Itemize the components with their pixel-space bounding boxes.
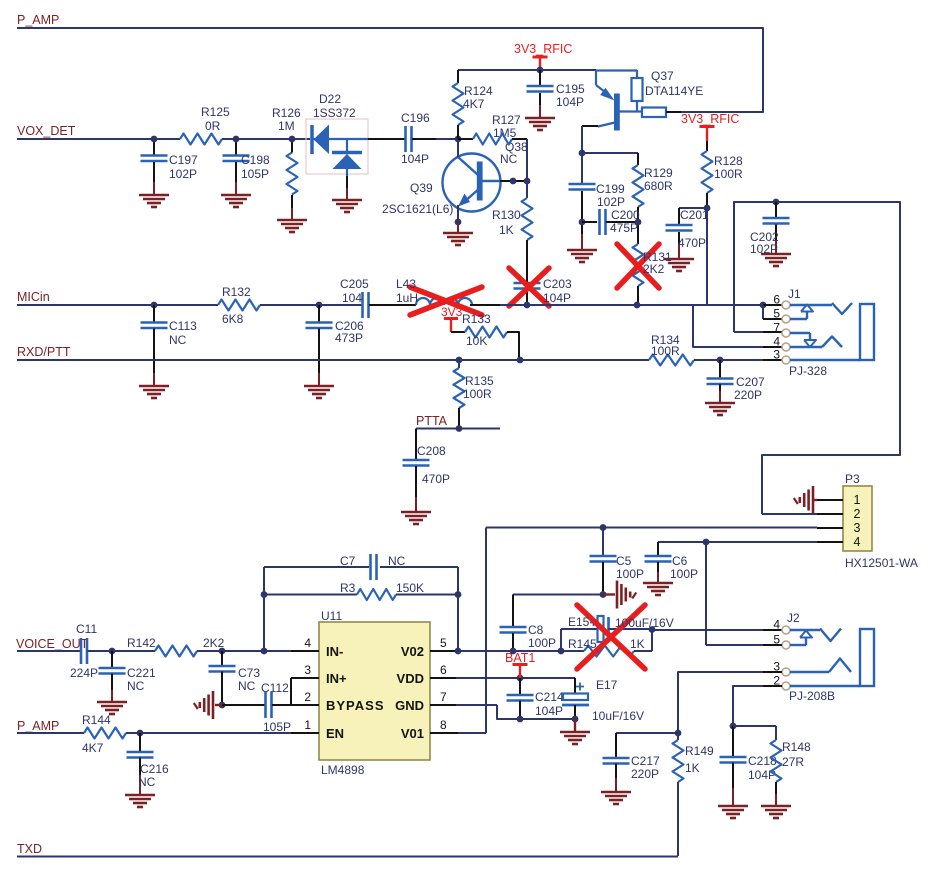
svg-text:C7: C7: [340, 554, 356, 568]
svg-text:3: 3: [304, 663, 311, 677]
svg-text:U11: U11: [321, 609, 342, 623]
svg-text:C11: C11: [76, 622, 97, 636]
svg-text:473P: 473P: [335, 331, 363, 345]
svg-text:NC: NC: [388, 554, 406, 568]
svg-text:10K: 10K: [466, 334, 487, 348]
svg-text:Q37: Q37: [651, 69, 674, 83]
svg-text:R144: R144: [82, 713, 111, 727]
svg-text:EN: EN: [326, 726, 344, 741]
svg-text:1uH: 1uH: [396, 291, 418, 305]
svg-text:4: 4: [854, 535, 861, 549]
svg-text:VOICE_OUT: VOICE_OUT: [16, 637, 89, 651]
svg-text:6: 6: [440, 663, 447, 677]
svg-text:6: 6: [773, 293, 780, 307]
svg-text:475P: 475P: [610, 221, 638, 235]
svg-text:5: 5: [773, 307, 780, 321]
svg-text:HX12501-WA: HX12501-WA: [845, 556, 918, 570]
svg-text:P3: P3: [845, 472, 860, 486]
svg-text:150K: 150K: [396, 581, 424, 595]
svg-text:C207: C207: [736, 375, 765, 389]
svg-text:1: 1: [304, 718, 311, 732]
svg-text:4K7: 4K7: [463, 97, 485, 111]
svg-text:R133: R133: [462, 312, 491, 326]
svg-text:C6: C6: [672, 554, 688, 568]
svg-text:C8: C8: [528, 623, 544, 637]
svg-text:MICin: MICin: [17, 290, 50, 304]
svg-text:C214: C214: [535, 690, 564, 704]
svg-text:104P: 104P: [556, 95, 584, 109]
svg-text:C195: C195: [556, 82, 585, 96]
svg-text:J1: J1: [788, 287, 801, 301]
svg-text:3V3_RFIC: 3V3_RFIC: [681, 112, 739, 126]
svg-text:R148: R148: [782, 740, 811, 754]
svg-text:3V3_RFIC: 3V3_RFIC: [514, 42, 572, 56]
svg-text:C205: C205: [340, 277, 369, 291]
svg-text:224P: 224P: [70, 666, 98, 680]
svg-text:E15: E15: [568, 615, 590, 629]
svg-text:C113: C113: [169, 319, 197, 333]
svg-text:C112: C112: [261, 681, 289, 695]
svg-text:R3: R3: [340, 581, 356, 595]
svg-text:104P: 104P: [535, 704, 563, 718]
svg-text:R127: R127: [492, 113, 521, 127]
svg-text:27R: 27R: [782, 755, 804, 769]
svg-text:100P: 100P: [528, 636, 556, 650]
svg-text:Q39: Q39: [410, 181, 433, 195]
svg-text:8: 8: [440, 718, 447, 732]
svg-text:R124: R124: [464, 84, 493, 98]
svg-text:220P: 220P: [734, 388, 762, 402]
svg-text:105P: 105P: [263, 720, 291, 734]
svg-text:R126: R126: [272, 106, 301, 120]
svg-text:C199: C199: [596, 182, 625, 196]
svg-text:100uF/16V: 100uF/16V: [615, 616, 674, 630]
svg-text:R149: R149: [685, 744, 714, 758]
svg-text:7: 7: [440, 690, 447, 704]
svg-text:10uF/16V: 10uF/16V: [592, 709, 644, 723]
svg-text:6K8: 6K8: [222, 312, 244, 326]
svg-text:220P: 220P: [631, 767, 659, 781]
svg-text:VOX_DET: VOX_DET: [17, 124, 76, 138]
svg-text:D22: D22: [319, 92, 341, 106]
svg-text:C196: C196: [401, 111, 430, 125]
svg-text:C203: C203: [543, 277, 572, 291]
svg-text:C217: C217: [631, 754, 660, 768]
svg-text:NC: NC: [127, 679, 145, 693]
svg-text:2K2: 2K2: [643, 262, 665, 276]
svg-text:1SS372: 1SS372: [313, 106, 356, 120]
svg-text:1K: 1K: [685, 761, 700, 775]
svg-text:470P: 470P: [678, 236, 706, 250]
svg-text:C73: C73: [238, 666, 260, 680]
svg-text:PJ-208B: PJ-208B: [789, 689, 835, 703]
svg-text:PJ-328: PJ-328: [789, 364, 827, 378]
svg-text:NC: NC: [238, 679, 256, 693]
svg-text:4: 4: [773, 618, 780, 632]
svg-text:NC: NC: [500, 152, 518, 166]
svg-text:BYPASS: BYPASS: [326, 698, 385, 713]
svg-text:100R: 100R: [651, 344, 680, 358]
svg-text:IN+: IN+: [326, 671, 347, 686]
svg-text:102P: 102P: [169, 167, 197, 181]
svg-text:P_AMP: P_AMP: [17, 13, 59, 27]
svg-text:4K7: 4K7: [82, 741, 104, 755]
svg-text:104P: 104P: [401, 152, 429, 166]
svg-text:C197: C197: [169, 153, 198, 167]
svg-text:C208: C208: [417, 444, 446, 458]
svg-text:V01: V01: [401, 726, 424, 741]
svg-text:C5: C5: [616, 554, 632, 568]
svg-text:NC: NC: [169, 333, 187, 347]
svg-text:1K: 1K: [630, 637, 645, 651]
svg-text:RXD/PTT: RXD/PTT: [17, 345, 71, 359]
svg-text:2SC1621(L6): 2SC1621(L6): [382, 202, 453, 216]
svg-text:100R: 100R: [463, 387, 492, 401]
svg-text:104: 104: [342, 291, 362, 305]
svg-text:J2: J2: [787, 611, 800, 625]
svg-text:4: 4: [773, 335, 780, 349]
svg-text:IN-: IN-: [326, 644, 343, 659]
svg-text:100R: 100R: [714, 167, 743, 181]
svg-text:PTTA: PTTA: [416, 414, 448, 428]
svg-text:680R: 680R: [644, 179, 673, 193]
svg-text:5: 5: [440, 636, 447, 650]
svg-text:1K: 1K: [499, 223, 514, 237]
svg-text:104P: 104P: [543, 291, 571, 305]
svg-text:4: 4: [304, 636, 311, 650]
svg-text:C216: C216: [140, 762, 169, 776]
svg-text:GND: GND: [395, 698, 424, 713]
svg-text:R135: R135: [465, 374, 494, 388]
svg-text:1: 1: [854, 493, 861, 507]
svg-text:3V3: 3V3: [441, 305, 463, 319]
svg-text:C201: C201: [680, 208, 709, 222]
svg-text:2: 2: [854, 507, 861, 521]
svg-text:VDD: VDD: [397, 671, 424, 686]
svg-text:3: 3: [854, 521, 861, 535]
svg-text:2K2: 2K2: [203, 636, 225, 650]
svg-text:R145: R145: [568, 637, 597, 651]
svg-text:R142: R142: [127, 636, 156, 650]
svg-text:C198: C198: [241, 153, 270, 167]
svg-text:NC: NC: [138, 775, 156, 789]
svg-text:V02: V02: [401, 644, 424, 659]
svg-text:2: 2: [304, 690, 311, 704]
svg-text:E17: E17: [596, 678, 618, 692]
svg-text:102P: 102P: [597, 195, 625, 209]
svg-text:105P: 105P: [241, 167, 269, 181]
svg-text:102P: 102P: [750, 242, 778, 256]
svg-text:P_AMP: P_AMP: [17, 719, 59, 733]
svg-text:TXD: TXD: [17, 842, 42, 856]
svg-text:BAT1: BAT1: [505, 651, 535, 665]
svg-text:7: 7: [773, 321, 780, 335]
svg-text:100P: 100P: [616, 567, 644, 581]
svg-text:C221: C221: [127, 666, 156, 680]
svg-text:470P: 470P: [422, 472, 450, 486]
svg-text:R130: R130: [492, 208, 521, 222]
svg-text:0R: 0R: [205, 119, 221, 133]
svg-text:LM4898: LM4898: [321, 763, 365, 777]
svg-text:R125: R125: [201, 105, 230, 119]
svg-text:DTA114YE: DTA114YE: [645, 84, 703, 98]
svg-text:R132: R132: [222, 285, 251, 299]
svg-text:L43: L43: [396, 277, 416, 291]
svg-text:100P: 100P: [670, 567, 698, 581]
svg-text:1M: 1M: [278, 119, 295, 133]
svg-text:3: 3: [773, 348, 780, 362]
svg-text:R129: R129: [644, 166, 673, 180]
svg-text:R128: R128: [714, 154, 743, 168]
